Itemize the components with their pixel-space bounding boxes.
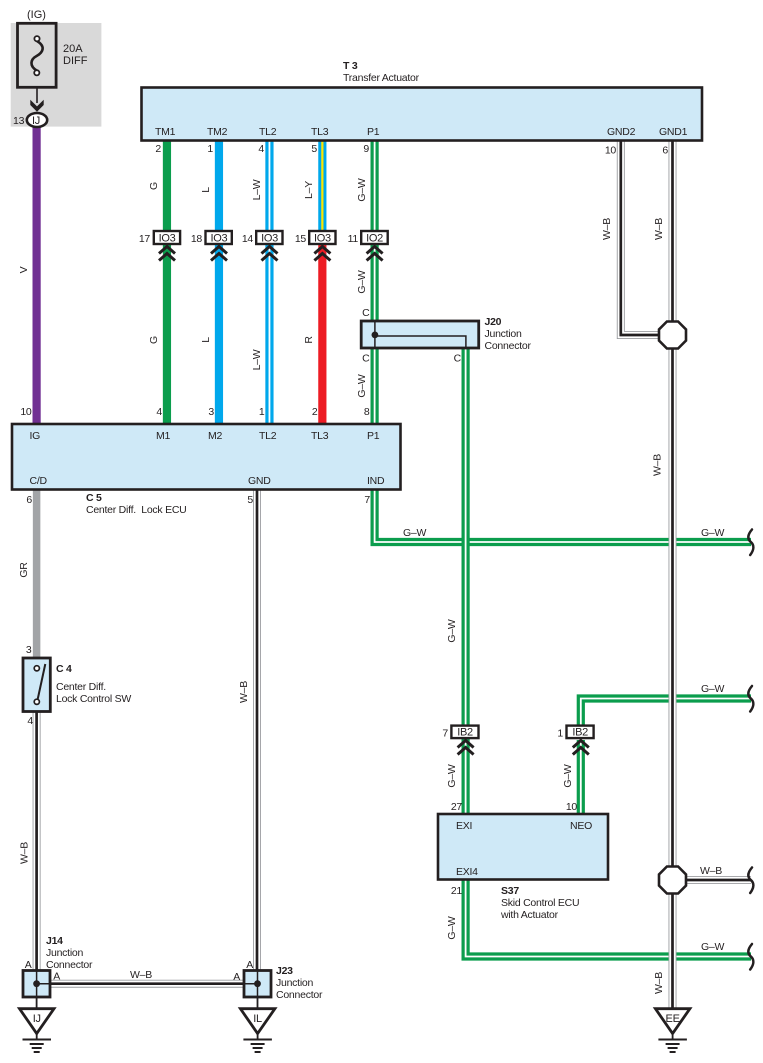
svg-text:27: 27: [451, 801, 463, 813]
svg-text:Connector: Connector: [485, 340, 532, 352]
svg-text:L–W: L–W: [251, 179, 263, 200]
svg-text:GND1: GND1: [659, 126, 688, 138]
svg-text:IO3: IO3: [210, 233, 227, 245]
svg-text:J20: J20: [485, 316, 502, 328]
svg-text:NEO: NEO: [570, 820, 592, 832]
svg-text:C/D: C/D: [30, 475, 48, 487]
svg-text:18: 18: [191, 233, 203, 245]
svg-text:Junction: Junction: [46, 947, 84, 959]
svg-text:W–B: W–B: [130, 969, 152, 981]
svg-text:8: 8: [364, 406, 370, 418]
svg-text:EXI4: EXI4: [456, 866, 478, 878]
wire G-W from IB2 to S37 NEO: [577, 740, 585, 815]
svg-text:5: 5: [311, 143, 317, 155]
svg-text:A: A: [53, 971, 60, 983]
wire L-Y from T3 TL3 to IO3: [318, 139, 326, 232]
transfer actuator T3 box: [142, 60, 703, 141]
svg-text:IND: IND: [367, 475, 385, 487]
svg-text:W–B: W–B: [653, 972, 665, 994]
svg-text:DIFF: DIFF: [63, 55, 88, 67]
wire from fuse to connector arrow: [36, 87, 38, 103]
svg-text:P1: P1: [367, 430, 380, 442]
junction connector J23: [233, 959, 323, 1001]
svg-text:W–B: W–B: [652, 454, 664, 476]
svg-text:IL: IL: [253, 1013, 262, 1025]
svg-text:2: 2: [312, 406, 318, 418]
svg-text:W–B: W–B: [653, 218, 665, 240]
svg-text:7: 7: [442, 728, 448, 740]
wire V from fuse IJ to C5 IG: [33, 125, 41, 425]
svg-text:GR: GR: [18, 562, 30, 578]
svg-text:Junction: Junction: [485, 328, 523, 340]
svg-text:C 4: C 4: [56, 663, 72, 675]
svg-text:3: 3: [26, 644, 32, 656]
svg-text:TL2: TL2: [259, 126, 277, 138]
svg-text:Center Diff. Lock ECU: Center Diff. Lock ECU: [86, 504, 187, 516]
octagon junction upper: [659, 322, 686, 349]
svg-text:IJ: IJ: [32, 115, 40, 127]
svg-text:GND2: GND2: [607, 126, 636, 138]
fuse 20A DIFF: [18, 23, 88, 87]
svg-text:M2: M2: [208, 430, 222, 442]
svg-text:1: 1: [259, 406, 265, 418]
ground EE: [655, 1009, 690, 1052]
svg-text:T 3: T 3: [343, 60, 358, 72]
svg-text:Lock Control SW: Lock Control SW: [56, 693, 131, 705]
svg-text:G–W: G–W: [446, 764, 458, 788]
svg-text:V: V: [18, 266, 30, 273]
svg-text:G–W: G–W: [701, 527, 725, 539]
offpage curl bottom G-W: [748, 944, 753, 970]
octagon junction lower: [659, 867, 686, 894]
svg-text:W–B: W–B: [238, 681, 250, 703]
connector IB2 1: [557, 726, 593, 755]
svg-text:6: 6: [662, 145, 668, 157]
svg-text:W–B: W–B: [19, 842, 31, 864]
svg-text:IO3: IO3: [261, 233, 278, 245]
svg-text:2: 2: [155, 143, 161, 155]
svg-text:1: 1: [207, 143, 213, 155]
svg-text:(IG): (IG): [27, 9, 46, 21]
svg-text:G–W: G–W: [562, 764, 574, 788]
wire G-W from T3 P1 to C5 P1: [371, 139, 379, 425]
connector IO3 17: [139, 231, 180, 261]
svg-text:G–W: G–W: [446, 916, 458, 940]
svg-text:W–B: W–B: [601, 218, 613, 240]
svg-text:Connector: Connector: [46, 959, 93, 971]
wire W-B from T3 GND1 down to EE ground: [669, 139, 677, 1009]
svg-text:3: 3: [208, 406, 214, 418]
fuse block shaded area: [11, 23, 102, 127]
svg-text:17: 17: [139, 233, 151, 245]
svg-text:IJ: IJ: [33, 1013, 41, 1025]
ground IL: [240, 997, 275, 1052]
svg-text:14: 14: [242, 233, 254, 245]
svg-text:13: 13: [13, 115, 25, 127]
svg-text:IG: IG: [30, 430, 41, 442]
svg-text:with Actuator: with Actuator: [500, 909, 559, 921]
svg-text:TL2: TL2: [259, 430, 277, 442]
svg-text:C: C: [362, 353, 370, 365]
svg-text:G–W: G–W: [356, 178, 368, 202]
svg-text:G–W: G–W: [356, 270, 368, 294]
svg-text:G–W: G–W: [701, 941, 725, 953]
svg-text:IO3: IO3: [159, 233, 176, 245]
svg-text:Transfer Actuator: Transfer Actuator: [343, 72, 420, 84]
svg-text:GND: GND: [248, 475, 271, 487]
svg-text:Skid Control ECU: Skid Control ECU: [501, 897, 579, 909]
wire W-B from T3 GND2 to octagon junction: [621, 139, 660, 335]
svg-text:G–W: G–W: [701, 683, 725, 695]
skid control ECU S37 box: [438, 814, 608, 921]
svg-text:P1: P1: [367, 126, 380, 138]
svg-text:15: 15: [295, 233, 307, 245]
wire G-W from J20 to IB2 and S37 EXI: [462, 347, 470, 815]
wire G-W from S37 EXI4 to right edge: [466, 879, 751, 957]
svg-text:R: R: [303, 336, 315, 344]
wire G from T3 TM1 to C5 M1: [163, 139, 171, 425]
svg-text:TM1: TM1: [155, 126, 176, 138]
svg-text:4: 4: [156, 406, 162, 418]
svg-text:C: C: [454, 353, 462, 365]
offpage curl W-B: [748, 868, 753, 894]
svg-text:21: 21: [451, 885, 463, 897]
offpage curl IND: [748, 530, 753, 556]
wire W-B from C4 to J14: [33, 711, 41, 997]
svg-text:G–W: G–W: [446, 619, 458, 643]
offpage curl NEO: [748, 686, 753, 712]
wire W-B from C5 GND to J23: [253, 489, 261, 997]
connector IB2 7: [442, 726, 478, 755]
center diff lock ECU C5 box: [12, 424, 401, 516]
svg-text:EE: EE: [666, 1013, 680, 1025]
svg-text:A: A: [233, 971, 240, 983]
svg-text:6: 6: [26, 494, 32, 506]
svg-text:TM2: TM2: [207, 126, 228, 138]
svg-text:TL3: TL3: [311, 430, 329, 442]
junction connector J14: [23, 935, 93, 997]
wire GR from C5 C/D to C4: [33, 489, 41, 659]
svg-text:IO3: IO3: [314, 233, 331, 245]
svg-text:7: 7: [364, 494, 370, 506]
svg-text:C: C: [362, 307, 370, 319]
wire W-B from octagon junction to right edge: [683, 876, 751, 884]
svg-text:Connector: Connector: [276, 989, 323, 1001]
svg-text:L–W: L–W: [251, 349, 263, 370]
svg-text:J14: J14: [46, 935, 63, 947]
svg-text:J23: J23: [276, 965, 293, 977]
svg-text:G–W: G–W: [356, 374, 368, 398]
svg-text:5: 5: [247, 494, 253, 506]
svg-text:11: 11: [348, 233, 359, 245]
svg-text:EXI: EXI: [456, 820, 472, 832]
svg-text:IB2: IB2: [572, 727, 588, 739]
svg-text:10: 10: [20, 406, 32, 418]
svg-text:W–B: W–B: [700, 865, 722, 877]
ground IJ: [20, 997, 55, 1052]
junction connector J20: [361, 316, 531, 352]
wire L-W from T3 TL2 to C5 TL2: [265, 139, 273, 425]
svg-text:Junction: Junction: [276, 977, 314, 989]
svg-text:TL3: TL3: [311, 126, 329, 138]
connector arrow: [30, 100, 43, 112]
svg-text:20A: 20A: [63, 43, 83, 55]
connector IO3 18: [191, 231, 232, 261]
svg-text:M1: M1: [156, 430, 170, 442]
svg-text:10: 10: [605, 145, 617, 157]
svg-text:C 5: C 5: [86, 492, 102, 504]
svg-text:Center Diff.: Center Diff.: [56, 681, 106, 693]
svg-text:1: 1: [557, 728, 563, 740]
svg-text:9: 9: [363, 143, 369, 155]
connector oval IJ: [27, 113, 47, 127]
svg-text:S37: S37: [501, 885, 519, 897]
connector IO3 14: [242, 231, 283, 261]
wire G-W from right edge to S37 NEO: [581, 699, 751, 727]
svg-text:G–W: G–W: [403, 527, 427, 539]
svg-text:10: 10: [566, 801, 578, 813]
connector IO2 11: [348, 231, 388, 261]
connector IO3 15: [295, 231, 336, 261]
wire R from IO3 to C5 TL3: [318, 232, 326, 425]
svg-text:4: 4: [258, 143, 264, 155]
svg-text:L–Y: L–Y: [303, 181, 315, 199]
wire G-W from C5 IND to right edge: [375, 489, 751, 542]
svg-text:IO2: IO2: [366, 233, 383, 245]
svg-text:G: G: [148, 182, 160, 190]
wire W-B from J14 to J23: [49, 980, 245, 988]
svg-text:G: G: [148, 336, 160, 344]
svg-text:L: L: [200, 187, 212, 193]
svg-text:IB2: IB2: [457, 727, 473, 739]
svg-text:4: 4: [27, 715, 33, 727]
center diff lock control switch C4: [23, 658, 131, 712]
svg-text:L: L: [200, 337, 212, 343]
wire L from T3 TM2 to C5 M2: [215, 139, 223, 425]
